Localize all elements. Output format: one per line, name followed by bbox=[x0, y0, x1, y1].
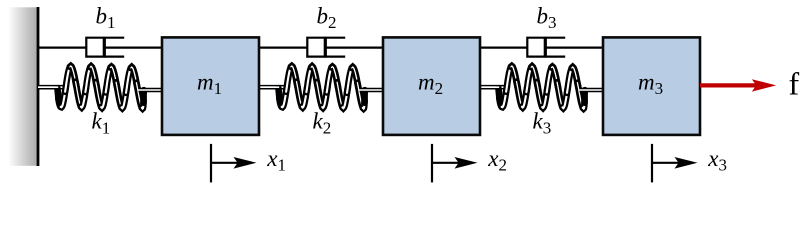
wire damper b3 left rod bbox=[479, 46, 527, 48]
force arrow f shaft bbox=[700, 83, 757, 87]
wall bbox=[8, 7, 37, 166]
svg-text:b3: b3 bbox=[537, 3, 557, 32]
wire damper b1 right rod bbox=[104, 46, 164, 48]
damper B2 cylinder bbox=[307, 38, 345, 57]
wire spring k3 right lead bbox=[580, 88, 606, 93]
svg-text:b1: b1 bbox=[96, 3, 116, 32]
mass M3 block bbox=[603, 37, 700, 134]
mass M2 block bbox=[383, 37, 480, 134]
node x2 reference tick bbox=[431, 144, 433, 183]
wire spring k2 right lead bbox=[360, 88, 386, 93]
arrow x2 head bbox=[455, 157, 478, 169]
svg-text:k3: k3 bbox=[533, 109, 552, 138]
damper B1 piston bbox=[103, 37, 106, 58]
damper B3 piston bbox=[544, 37, 547, 58]
wire spring k2 left lead bbox=[259, 85, 286, 90]
force arrow f head bbox=[752, 79, 776, 91]
damper B2 piston bbox=[324, 37, 327, 58]
spring K3 coil bbox=[498, 66, 584, 109]
arrow x3 head bbox=[675, 157, 698, 169]
wire damper b3 right rod bbox=[545, 46, 605, 48]
wire spring k3 left lead bbox=[479, 85, 506, 90]
svg-text:k1: k1 bbox=[92, 109, 111, 138]
arrow x2 shaft bbox=[432, 162, 459, 164]
mass M1 block bbox=[162, 37, 259, 134]
svg-text:k2: k2 bbox=[313, 109, 332, 138]
svg-text:x2: x2 bbox=[487, 146, 507, 175]
arrow x1 head bbox=[234, 157, 257, 169]
damper B3 cylinder bbox=[527, 38, 565, 57]
spring K1 coil bbox=[57, 66, 143, 109]
wire damper b1 left rod bbox=[38, 46, 86, 48]
wire spring k1 right lead bbox=[139, 88, 165, 93]
node x1 reference tick bbox=[210, 144, 212, 183]
svg-text:x3: x3 bbox=[707, 146, 727, 175]
damper B1 cylinder bbox=[86, 38, 124, 57]
spring K2 coil bbox=[278, 66, 364, 109]
wire damper b2 left rod bbox=[259, 46, 307, 48]
svg-text:b2: b2 bbox=[317, 3, 337, 32]
wire spring k1 left lead bbox=[38, 85, 65, 90]
wall face line bbox=[37, 7, 40, 166]
svg-text:x1: x1 bbox=[266, 146, 286, 175]
wire damper b2 right rod bbox=[325, 46, 385, 48]
node x3 reference tick bbox=[651, 144, 653, 183]
svg-text:f: f bbox=[789, 66, 800, 102]
arrow x1 shaft bbox=[211, 162, 238, 164]
arrow x3 shaft bbox=[652, 162, 679, 164]
